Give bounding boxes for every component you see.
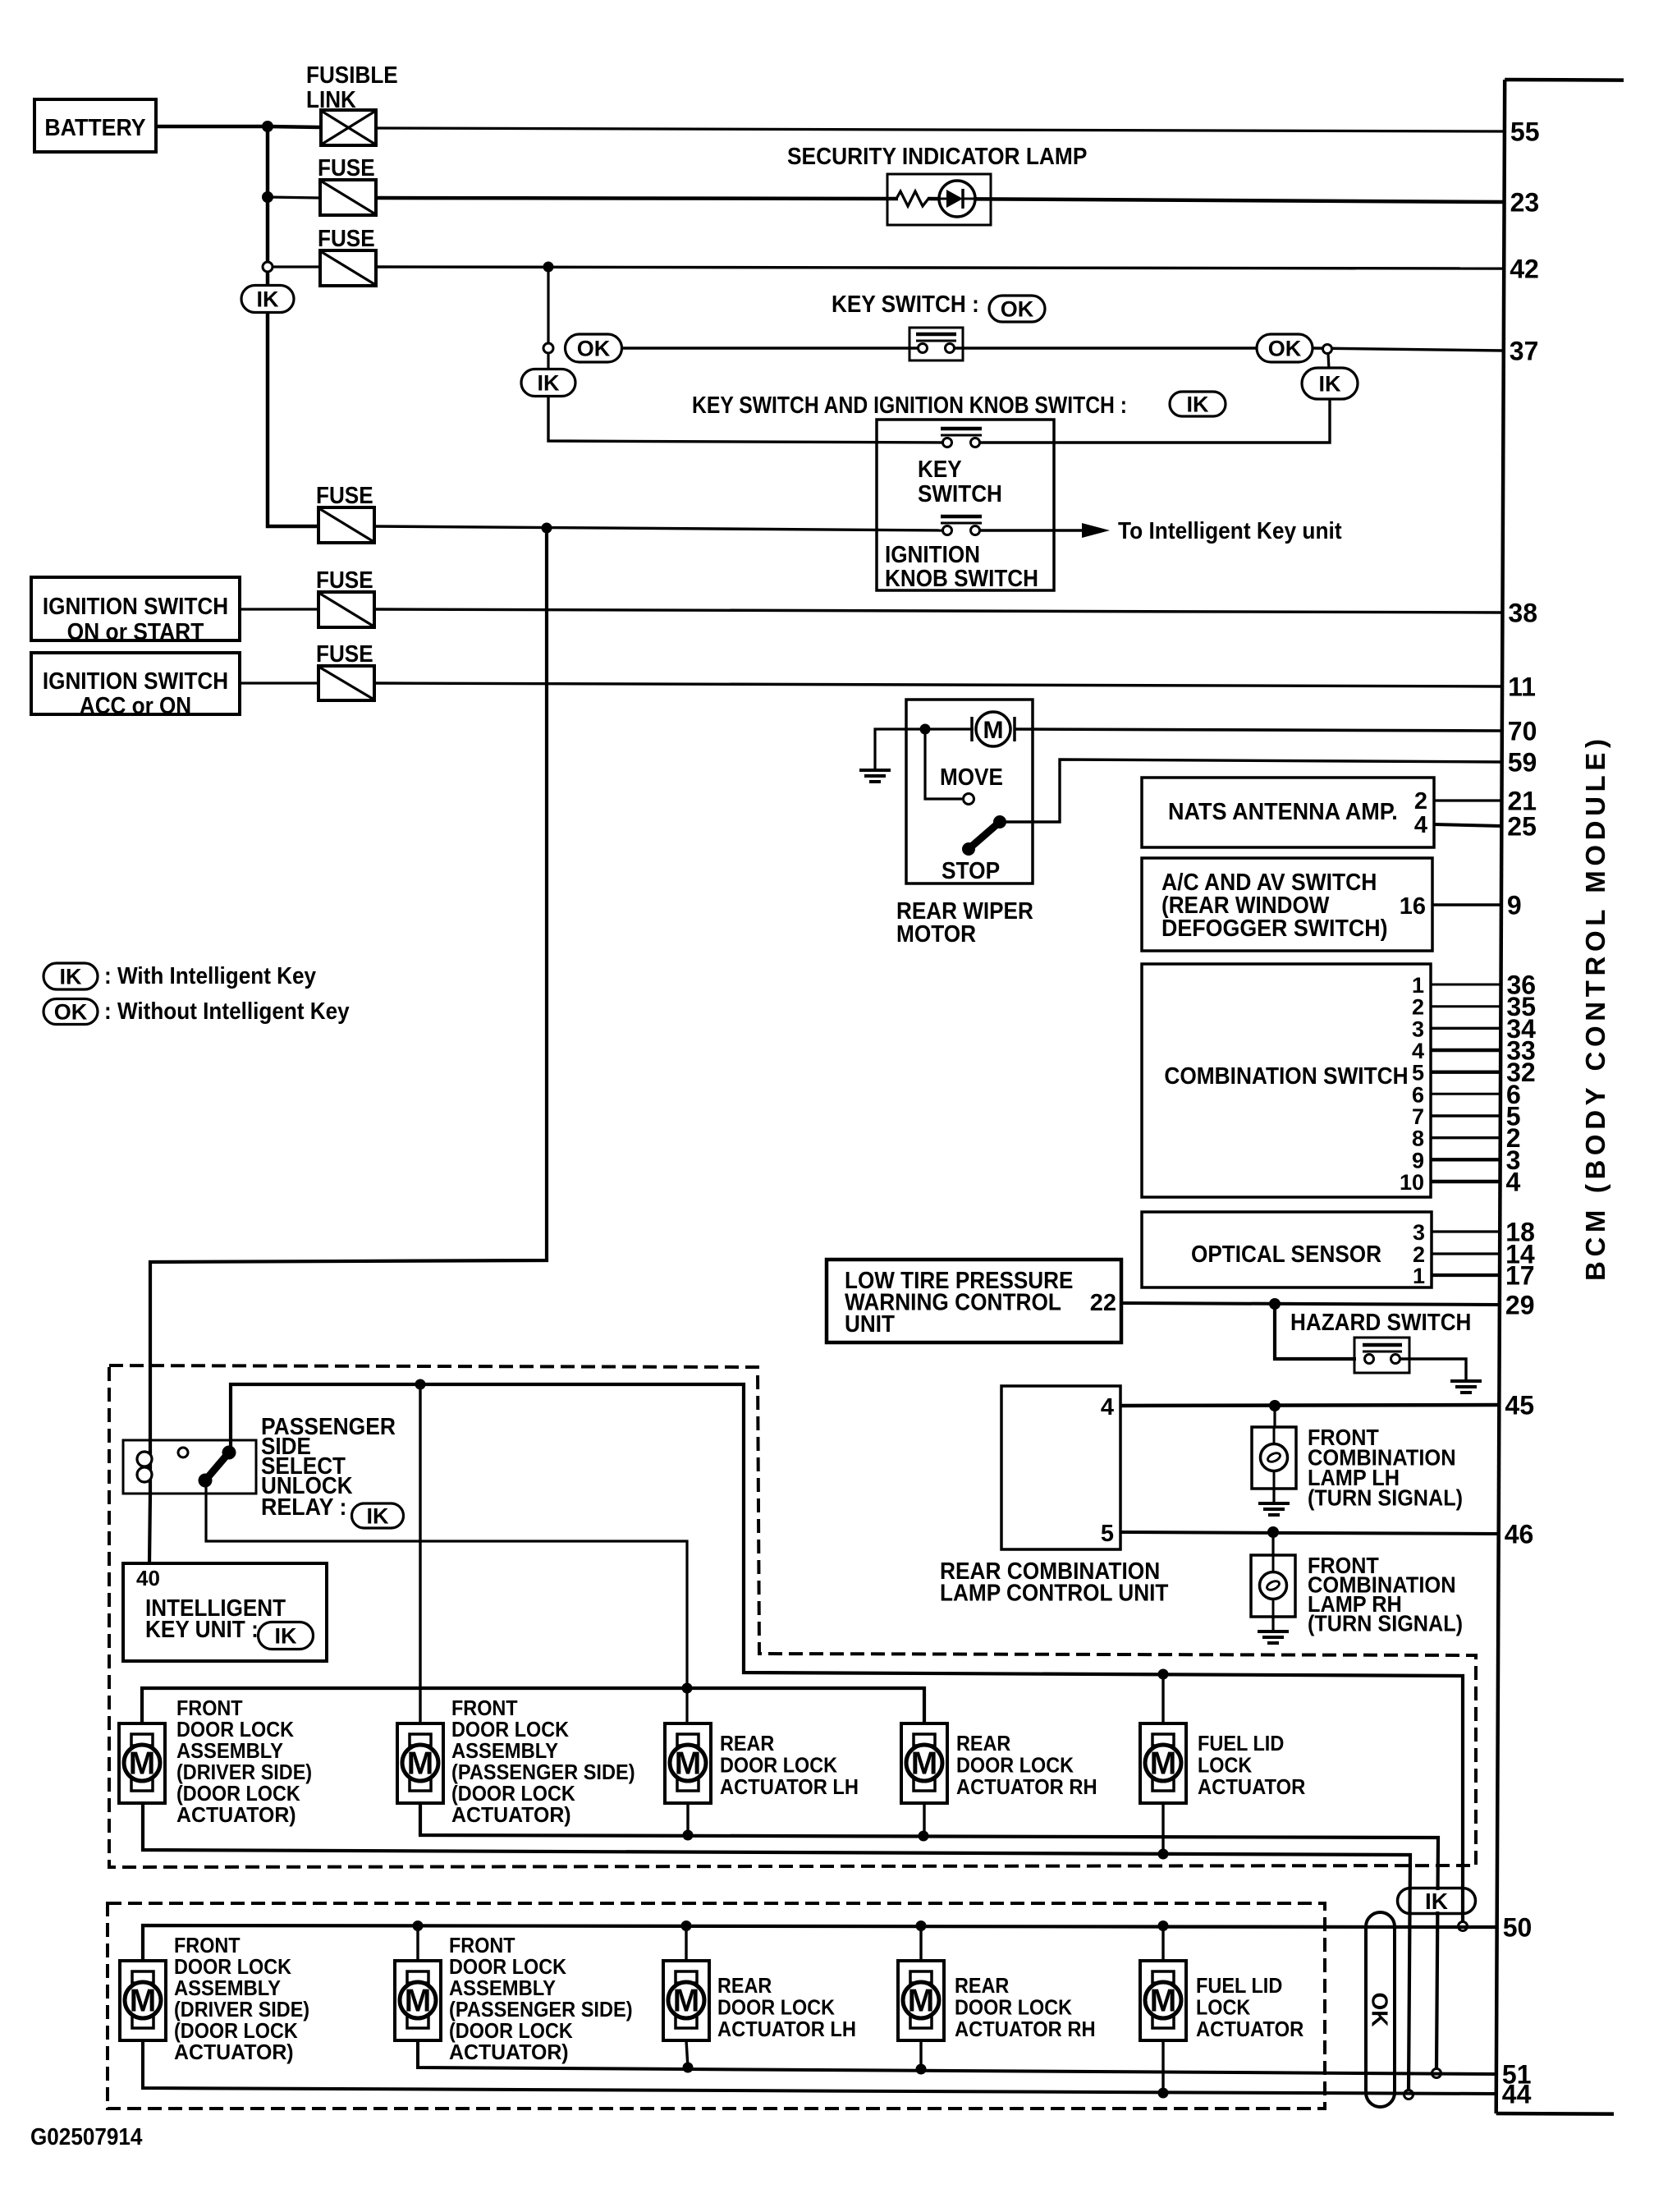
svg-text:KEY SWITCH AND IGNITION KNOB S: KEY SWITCH AND IGNITION KNOB SWITCH : (692, 392, 1127, 419)
wire passenger door M feed (419, 1384, 421, 1724)
low tire pressure warning control unit box (827, 1260, 1121, 1342)
motor M rear door lock actuator LH row1 (665, 1723, 711, 1803)
combination switch pin 7 wire (1431, 1114, 1501, 1117)
svg-text:ACTUATOR LH: ACTUATOR LH (717, 2017, 856, 2041)
node fuse1 junction dot (262, 191, 273, 203)
combination switch pin 1 wire (1431, 984, 1501, 986)
fusible link symbol (268, 126, 321, 127)
optical sensor pin 2 wire (1432, 1252, 1500, 1255)
BCM bottom edge (1496, 2112, 1614, 2116)
svg-text:37: 37 (1510, 337, 1539, 366)
IK oval on battery feed (241, 286, 294, 313)
motor M fuel lid lock actuator row2 (1140, 1961, 1186, 2040)
svg-text:KEY UNIT :: KEY UNIT : (145, 1617, 259, 1643)
svg-text:ACTUATOR RH: ACTUATOR RH (956, 1774, 1097, 1799)
svg-text:LOCK: LOCK (1198, 1753, 1252, 1778)
svg-text:IK: IK (1319, 372, 1342, 397)
wire 42 fuse F2 to BCM pin 42 (376, 267, 1504, 268)
wire junction to fuse F1 (268, 197, 320, 198)
node ignition knob feed dot (542, 523, 552, 534)
wire 46 pin5 to BCM pin 46 (1120, 1532, 1499, 1534)
wire 38 to BCM pin 38 (374, 609, 1502, 613)
optical sensor pin 1 wire (1432, 1274, 1500, 1277)
wire 70 motor to BCM pin 70 (1015, 729, 1502, 731)
motor M fuel lid lock actuator row1 (1140, 1723, 1186, 1803)
svg-text:4: 4 (1506, 1168, 1521, 1197)
svg-text:REAR: REAR (955, 1973, 1010, 1998)
relay lever (205, 1452, 229, 1480)
svg-text:M: M (1150, 1984, 1177, 2019)
motor M front door lock passenger side row1 (397, 1723, 443, 1803)
svg-text:LOCK: LOCK (1196, 1995, 1250, 2020)
svg-text:M: M (908, 1984, 935, 2019)
svg-text:17: 17 (1505, 1261, 1535, 1291)
svg-text:DOOR LOCK: DOOR LOCK (720, 1753, 837, 1778)
svg-text:(TURN SIGNAL): (TURN SIGNAL) (1308, 1485, 1463, 1511)
node battery junction dot (262, 121, 273, 132)
svg-text:DEFOGGER SWITCH): DEFOGGER SWITCH) (1161, 916, 1388, 942)
front combination lamp RH symbol (1271, 1532, 1274, 1555)
IK oval left branch (547, 353, 549, 371)
wire row2 M feed lead x=1122 (919, 1925, 922, 1961)
wire 29 low tire unit to BCM pin 29 (1121, 1303, 1500, 1305)
svg-text:1: 1 (1412, 973, 1424, 998)
svg-text:22: 22 (1090, 1290, 1116, 1316)
svg-text:2: 2 (1412, 995, 1424, 1020)
wire row2 M feed lead x=1417 (1161, 1925, 1164, 1961)
MOVE contact of rear wiper (925, 729, 962, 799)
svg-text:KEY: KEY (918, 457, 962, 483)
svg-text:5: 5 (1412, 1061, 1424, 1085)
node row1 fuel lid lower dot (1158, 1849, 1169, 1860)
svg-text:45: 45 (1505, 1391, 1534, 1420)
legend OK without intelligent key (44, 999, 98, 1025)
ground rear wiper motor (859, 769, 891, 772)
svg-text:55: 55 (1510, 117, 1540, 147)
svg-text:IGNITION: IGNITION (885, 542, 980, 568)
wire relay common to top wire (231, 1384, 1463, 1922)
wire IK left to key switch contacts (548, 397, 943, 443)
svg-text:ACTUATOR): ACTUATOR) (176, 1802, 296, 1827)
motor M front door lock driver side row1 (119, 1723, 165, 1803)
node lamp LH dot (1269, 1400, 1281, 1411)
svg-text:G02507914: G02507914 (30, 2124, 142, 2150)
BCM top edge (1505, 78, 1624, 82)
svg-text:9: 9 (1412, 1148, 1424, 1173)
svg-text:M: M (673, 1984, 700, 2019)
svg-text:To Intelligent Key unit: To Intelligent Key unit (1118, 518, 1342, 544)
svg-text:ACTUATOR): ACTUATOR) (451, 1802, 571, 1827)
svg-text:29: 29 (1505, 1291, 1535, 1320)
svg-text:OPTICAL SENSOR: OPTICAL SENSOR (1191, 1241, 1381, 1268)
key switch contacts inside box (941, 427, 982, 431)
svg-text:M: M (130, 1984, 157, 2019)
wire row2 fuel lid lower lead (1161, 2040, 1164, 2093)
svg-text:NATS ANTENNA AMP.: NATS ANTENNA AMP. (1168, 799, 1398, 825)
svg-text:ACTUATOR LH: ACTUATOR LH (720, 1774, 859, 1799)
wire fuel lid M feed (1161, 1674, 1164, 1724)
wire 37 to BCM pin 37 (1313, 348, 1504, 351)
node hazard branch dot (1269, 1298, 1281, 1310)
svg-text:FUSE: FUSE (318, 155, 375, 181)
OK oval right (1257, 334, 1313, 362)
key switch symbol (without intelligent key) (909, 328, 963, 360)
svg-text:FUSIBLE: FUSIBLE (306, 62, 398, 89)
combination switch pin 5 wire (1431, 1070, 1501, 1073)
front combination lamp LH symbol (1273, 1406, 1276, 1427)
connector open circle OK branch (543, 343, 553, 353)
motor M rear door lock actuator LH row2 (663, 1961, 709, 2040)
wire row1 lower A (to pin 51) (420, 1803, 1438, 2069)
wire 9 A/C switch to BCM pin 9 (1432, 903, 1501, 906)
svg-text:KNOB SWITCH: KNOB SWITCH (885, 566, 1038, 592)
node row1 rear RH lower dot (919, 1831, 929, 1842)
fuse F4 symbol (240, 608, 318, 610)
wire hazard switch to ground (1400, 1359, 1466, 1381)
OK capsule bottom (1366, 1912, 1395, 2107)
wire column fuse3 feed to relay area (150, 528, 547, 1443)
svg-text:11: 11 (1508, 672, 1536, 702)
node row2 rear RH lower dot (916, 2064, 927, 2075)
key switch and ignition knob switch box (877, 420, 1054, 590)
svg-text:70: 70 (1508, 717, 1537, 746)
motor M rear door lock actuator RH row2 (898, 1961, 944, 2040)
wire 23 fuse F1 to security lamp to BCM pin 23 (376, 198, 898, 199)
wire branch down to OK/IK split (547, 267, 549, 344)
svg-text:ACTUATOR: ACTUATOR (1196, 2017, 1303, 2041)
motor M rear door lock actuator RH row1 (901, 1723, 947, 1803)
svg-text:7: 7 (1412, 1104, 1424, 1129)
wire row2 M feed lead x=836 (685, 1925, 687, 1961)
svg-text:ACTUATOR): ACTUATOR) (174, 2040, 294, 2064)
svg-text:4: 4 (1101, 1394, 1114, 1420)
svg-text:FUSE: FUSE (316, 483, 373, 509)
IGNITION SWITCH ON or START box (31, 577, 240, 640)
combination switch pin 10 wire (1431, 1180, 1501, 1183)
svg-text:46: 46 (1505, 1520, 1534, 1549)
motor M front door lock driver side row2 (120, 1961, 166, 2040)
ground lamp RH (1271, 1617, 1274, 1631)
svg-text:ACTUATOR: ACTUATOR (1198, 1774, 1305, 1799)
svg-text:REAR: REAR (956, 1731, 1011, 1755)
wire 50 row2 top feed to BCM pin 50 (143, 1925, 1497, 1961)
svg-text:LAMP CONTROL UNIT: LAMP CONTROL UNIT (940, 1581, 1169, 1607)
svg-text:ON or START: ON or START (67, 619, 204, 645)
svg-text:STOP: STOP (942, 858, 1000, 884)
NATS antenna amp box (1142, 778, 1434, 847)
rear combination lamp control unit box (1001, 1386, 1120, 1549)
svg-text:3: 3 (1413, 1220, 1425, 1245)
svg-text:HAZARD SWITCH: HAZARD SWITCH (1290, 1310, 1471, 1336)
svg-text:6: 6 (1412, 1082, 1424, 1107)
svg-text:4: 4 (1414, 812, 1427, 838)
intelligent key unit box (123, 1563, 327, 1661)
svg-text:OK: OK (54, 1000, 88, 1025)
svg-text:IK: IK (367, 1504, 390, 1529)
rear wiper motor box (906, 700, 1033, 883)
svg-text:M: M (983, 717, 1004, 744)
node row2 feed dot x=1122 (916, 1921, 927, 1931)
dashed box intelligent key system (109, 1365, 1476, 1867)
combination switch pin 8 wire (1431, 1136, 1501, 1139)
IK oval right below wire 37 (1328, 353, 1329, 369)
node row1 rear LH dot (682, 1683, 693, 1694)
wire row1 lower B (to pin 44) (143, 1803, 1410, 2090)
dashed box without intelligent key system (108, 1903, 1325, 2109)
svg-text:FUSE: FUSE (318, 226, 375, 252)
svg-text:10: 10 (1400, 1170, 1424, 1195)
svg-text:SWITCH: SWITCH (918, 481, 1002, 507)
wire 21 NATS pin2 to BCM pin 21 (1434, 799, 1502, 801)
svg-text:IK: IK (1425, 1888, 1448, 1914)
OK oval left (566, 334, 622, 362)
svg-text:OK: OK (1268, 337, 1302, 361)
wire row2 M feed lead x=509 (416, 1925, 419, 1961)
wire 25 NATS pin4 to BCM pin 25 (1434, 824, 1501, 826)
svg-text:8: 8 (1412, 1127, 1424, 1151)
relay coil (149, 1443, 152, 1494)
svg-text:DOOR LOCK: DOOR LOCK (955, 1995, 1072, 2020)
wire 11 to BCM pin 11 (374, 683, 1502, 686)
svg-text:OK: OK (577, 337, 611, 361)
STOP lever of rear wiper (969, 822, 1000, 849)
connector open circle on wire 50 (1459, 1922, 1468, 1931)
wire row2 rear RH lower lead (919, 2040, 922, 2069)
svg-text:FUSE: FUSE (316, 641, 373, 668)
wire relay coil to intelligent key unit (149, 1494, 150, 1563)
IK oval bottom (1398, 1888, 1476, 1914)
node row2 feed dot x=836 (681, 1921, 692, 1931)
battery BATTERY box (34, 99, 156, 152)
hazard switch symbol (1354, 1338, 1409, 1373)
svg-text:REAR: REAR (720, 1731, 775, 1755)
wire row1 fuel lid lower lead (1161, 1803, 1164, 1854)
relay aux contact circle (178, 1448, 188, 1457)
svg-text:: Without Intelligent Key: : Without Intelligent Key (104, 998, 350, 1025)
svg-text:50: 50 (1503, 1913, 1533, 1943)
node row2 fuel lid lower dot (1158, 2088, 1169, 2099)
svg-text:DOOR LOCK: DOOR LOCK (956, 1753, 1074, 1778)
ignition knob switch contacts (941, 515, 982, 519)
svg-text:KEY SWITCH :: KEY SWITCH : (832, 291, 979, 318)
connector open circle to fuse2 (IK) (263, 262, 273, 272)
combination switch pin 3 wire (1431, 1027, 1501, 1030)
svg-text:IK: IK (1187, 392, 1210, 417)
svg-text:FUSE: FUSE (316, 567, 373, 594)
wire fuse F3 to ignition knob switch (374, 526, 943, 530)
svg-text:16: 16 (1400, 893, 1426, 920)
node lamp RH dot (1267, 1526, 1279, 1538)
svg-text:4: 4 (1412, 1039, 1424, 1063)
svg-text:40: 40 (136, 1566, 160, 1590)
wire 59 stop contact to BCM pin 59 (1000, 760, 1502, 822)
svg-text:UNIT: UNIT (845, 1311, 895, 1338)
fuse F3 symbol (318, 507, 374, 543)
svg-text:IK: IK (538, 371, 561, 396)
motor symbol rear wiper (925, 727, 974, 730)
wire 44 row2 lower to BCM pin 44 (143, 2040, 1496, 2094)
svg-text:IK: IK (60, 965, 83, 989)
wire open circle to fuse F2 (273, 265, 320, 268)
combination switch pin 9 wire (1431, 1158, 1501, 1161)
svg-text:M: M (911, 1746, 938, 1782)
ground lamp LH (1272, 1489, 1275, 1503)
A/C and AV switch box (1142, 858, 1432, 951)
wire 55 fusible link to BCM pin 55 (376, 128, 1505, 131)
wire battery to junction (156, 125, 268, 129)
wire rear wiper motor to ground (875, 729, 925, 770)
combination switch box (1142, 964, 1431, 1197)
svg-text:9: 9 (1507, 891, 1522, 920)
connector open circle on wire 44 (1404, 2090, 1413, 2100)
node rear wiper junction dot (920, 724, 931, 735)
svg-text:59: 59 (1508, 748, 1537, 778)
svg-text:MOTOR: MOTOR (896, 921, 976, 948)
svg-text:5: 5 (1101, 1521, 1114, 1547)
svg-text:M: M (129, 1746, 156, 1782)
svg-text:M: M (1150, 1746, 1177, 1782)
svg-text:RELAY :: RELAY : (261, 1494, 346, 1521)
BCM body control module bus line (1496, 80, 1505, 2113)
svg-text:M: M (405, 1984, 432, 2019)
node fuel lid feed dot (1158, 1669, 1169, 1680)
motor M front door lock passenger side row2 (395, 1961, 441, 2040)
svg-text:DOOR LOCK: DOOR LOCK (717, 1995, 835, 2020)
svg-text:IK: IK (275, 1624, 298, 1649)
svg-text:ACTUATOR RH: ACTUATOR RH (955, 2017, 1096, 2041)
wire relay output to row1 wire (206, 1486, 687, 1724)
svg-text:OK: OK (1001, 297, 1034, 322)
legend IK with intelligent key (44, 963, 98, 989)
LED diode circle in security lamp (939, 181, 975, 217)
fuse F2 symbol (320, 250, 376, 286)
svg-text:IK: IK (257, 287, 280, 312)
node row1 rear LH lower dot (683, 1830, 694, 1841)
wire row1 rear LH lower lead (686, 1803, 689, 1835)
node row2 feed dot x=509 (413, 1921, 424, 1931)
connector open circle on wire 37 (1323, 345, 1332, 354)
wire to hazard switch (1275, 1304, 1356, 1359)
svg-text:COMBINATION SWITCH: COMBINATION SWITCH (1164, 1063, 1408, 1090)
security indicator lamp box (887, 174, 991, 225)
svg-text:42: 42 (1510, 255, 1539, 284)
wire row2 rear LH lower lead (686, 2040, 688, 2067)
combination switch pin 6 wire (1431, 1093, 1501, 1095)
wire key switch to OK oval right (954, 346, 1257, 349)
svg-text:(TURN SIGNAL): (TURN SIGNAL) (1308, 1611, 1463, 1636)
svg-text:BATTERY: BATTERY (44, 115, 145, 141)
svg-text:2: 2 (1414, 788, 1427, 815)
svg-text:FUEL LID: FUEL LID (1196, 1973, 1282, 1998)
node row2 feed dot x=1417 (1158, 1921, 1169, 1931)
wire row1 rear RH lower lead (923, 1803, 925, 1836)
svg-text:IGNITION SWITCH: IGNITION SWITCH (43, 594, 228, 620)
wire 51 row2 lower to BCM pin 51 (418, 2040, 1496, 2074)
combination switch pin 2 wire (1431, 1005, 1501, 1007)
svg-text:: With Intelligent Key: : With Intelligent Key (104, 963, 316, 989)
wire 45 pin4 to BCM pin 45 (1120, 1405, 1499, 1406)
svg-text:23: 23 (1510, 188, 1540, 218)
optical sensor box (1142, 1212, 1432, 1287)
node row2 rear LH lower dot (683, 2063, 694, 2073)
svg-text:FUEL LID: FUEL LID (1198, 1731, 1284, 1755)
svg-text:44: 44 (1502, 2080, 1532, 2109)
optical sensor pin 3 wire (1432, 1230, 1500, 1232)
svg-text:25: 25 (1507, 812, 1537, 842)
fuse F5 symbol (240, 681, 318, 684)
svg-text:ACC or ON: ACC or ON (80, 693, 191, 719)
wire ignition knob switch to intelligent key arrow (979, 529, 1082, 531)
arrow to intelligent key unit (1082, 523, 1110, 538)
svg-text:1: 1 (1413, 1264, 1425, 1288)
wire row1 top feed (142, 1688, 924, 1724)
node passenger feed dot (415, 1379, 426, 1390)
svg-text:M: M (407, 1746, 434, 1782)
svg-text:SECURITY INDICATOR LAMP: SECURITY INDICATOR LAMP (787, 144, 1087, 170)
svg-text:M: M (675, 1746, 702, 1782)
svg-text:38: 38 (1508, 599, 1537, 628)
ground hazard switch (1450, 1379, 1482, 1383)
svg-text:REAR: REAR (717, 1973, 772, 1998)
connector open circle on wire 51 (1432, 2069, 1441, 2078)
node wire42 branch dot (543, 262, 554, 273)
wire vertical battery feed bus x=326 (268, 126, 318, 526)
svg-text:ACTUATOR): ACTUATOR) (449, 2040, 569, 2064)
svg-text:3: 3 (1412, 1017, 1424, 1041)
svg-text:IGNITION SWITCH: IGNITION SWITCH (43, 668, 228, 695)
wire OK oval to key switch symbol (622, 346, 919, 349)
IGNITION SWITCH ACC or ON box (31, 653, 240, 714)
fuse F1 symbol (320, 180, 376, 215)
wire IK right down to key switch big box (979, 399, 1330, 443)
combination switch pin 4 wire (1431, 1049, 1501, 1052)
svg-text:MOVE: MOVE (940, 764, 1003, 791)
resistor zigzag in security lamp (896, 191, 928, 206)
svg-text:OK: OK (1368, 1993, 1393, 2027)
passenger side select unlock relay box (123, 1440, 256, 1494)
